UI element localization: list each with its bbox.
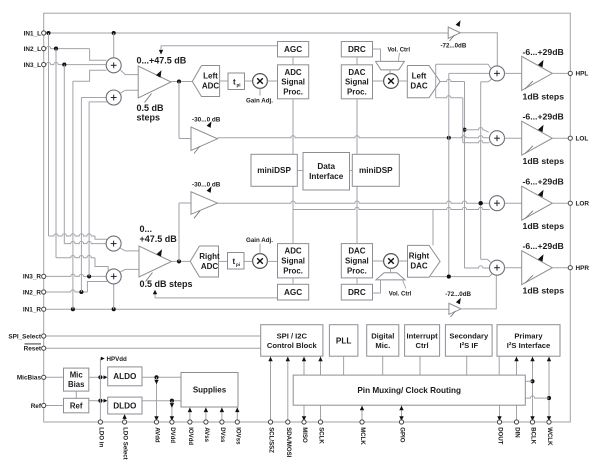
wire PinMux tap WCLK [525, 396, 549, 398]
block Primary I2S Interface [497, 325, 560, 357]
amp LOL tick [525, 146, 533, 154]
wire v3b to LOL mixer [463, 141, 490, 143]
wire v1 [448, 73, 450, 276]
wire Ref to DLDO [89, 400, 104, 402]
svg-text:I²S IF: I²S IF [460, 341, 479, 350]
wire IN1_R rise to summer S4 [113, 284, 115, 310]
wire GPIO riser [401, 405, 403, 422]
block Left ADC [192, 66, 219, 97]
wire miniDSP1 to DataIF [297, 170, 303, 172]
wire DVss riser [221, 407, 223, 422]
svg-text:AVss: AVss [203, 427, 210, 442]
block t_pi right [228, 253, 245, 270]
summer S3 [106, 236, 121, 251]
pin IOVss [235, 420, 239, 424]
summer S4 [106, 269, 121, 284]
block AGC right [278, 284, 309, 300]
wire AGC-R link [292, 278, 294, 284]
wire bypass L to LOL mixer [218, 136, 490, 138]
summer S2 [106, 90, 121, 105]
wire PriI2S link [498, 356, 500, 375]
svg-text:DAC: DAC [348, 68, 365, 77]
block SPI/I2C Control Block [261, 325, 323, 357]
svg-text:-72...0dB: -72...0dB [445, 291, 471, 298]
svg-text:HPR: HPR [576, 265, 590, 272]
pin HPL [568, 71, 572, 75]
wire bundle A jog [95, 236, 107, 239]
svg-text:IN1_L: IN1_L [24, 30, 41, 37]
wire ALDO out [142, 376, 181, 378]
PGA left gain arrow [156, 70, 162, 77]
svg-text:Primary: Primary [514, 331, 543, 340]
block Pin Muxing / Clock Routing [293, 375, 525, 405]
ctrl arrow AGC-L to PGA [160, 46, 162, 51]
wire LOL amp to pin [552, 137, 568, 139]
block DRC left [341, 42, 372, 57]
wire DAC-SP-R to mult [373, 260, 384, 262]
pin IN2_R [42, 290, 46, 294]
wire wedge stem left [389, 70, 391, 74]
wire PGA-L out drop to bypass amp [178, 82, 180, 139]
pin DVss [220, 420, 224, 424]
pin SCLK [318, 420, 322, 424]
wire v4 [480, 82, 482, 259]
wire IN2_R [46, 290, 88, 292]
wire wedge stem right [390, 268, 392, 272]
svg-text:Signal: Signal [281, 78, 305, 87]
PGA right gain arrow [156, 249, 162, 256]
amp -30..0dB left arrow [207, 121, 212, 128]
wire IN1_R to -72dB amp [46, 308, 449, 310]
svg-text:MCLK: MCLK [359, 427, 366, 445]
slant vol ctrl right [403, 280, 407, 289]
svg-text:Right: Right [409, 252, 430, 261]
wire AVdd drop [156, 377, 158, 422]
svg-text:DAC: DAC [348, 247, 365, 256]
wire DataIF to miniDSP2 [350, 170, 353, 172]
wire S1 to PGA L [120, 70, 138, 75]
block miniDSP left [251, 154, 297, 186]
wire DRC-R link [356, 278, 358, 284]
wire HPL amp to pin [552, 72, 568, 74]
wire right DAC top stub [432, 210, 434, 246]
svg-text:-30...0 dB: -30...0 dB [192, 182, 221, 189]
PGA right tick [146, 273, 153, 282]
svg-text:Signal: Signal [345, 78, 369, 87]
svg-text:Ctrl: Ctrl [416, 341, 429, 350]
svg-text:0.5 dB: 0.5 dB [137, 103, 165, 113]
amp -72..0dB right [449, 303, 461, 314]
svg-text:LDO Select: LDO Select [122, 427, 129, 460]
pin HPR [568, 266, 572, 270]
svg-text:AGC: AGC [284, 45, 302, 54]
block Left DAC [407, 66, 440, 98]
wire bundle B to summer S4 [56, 256, 95, 258]
wire ADC-SP-L to miniDSP [292, 99, 294, 155]
wire DAC-SP-L to miniDSP2 [356, 99, 358, 155]
wire PGA-R out rise to bypass amp [178, 203, 180, 261]
mixer LOR [490, 196, 505, 211]
wire Reset [46, 347, 261, 349]
svg-text:Gain Adj.: Gain Adj. [246, 237, 273, 244]
amp HPL -6..+29dB [522, 56, 553, 90]
wire IN2_R jog into summer S4 [87, 282, 107, 293]
wire MicBias-Ref link [75, 391, 77, 398]
svg-text:Ref: Ref [70, 401, 83, 410]
svg-text:MicBias: MicBias [17, 375, 42, 382]
amp -30..0dB right arrow [207, 186, 212, 193]
svg-text:PLL: PLL [336, 336, 351, 345]
svg-text:-6...+29dB: -6...+29dB [523, 241, 564, 251]
multiplier gain adj right [253, 254, 268, 269]
svg-text:-6...+29dB: -6...+29dB [523, 47, 564, 57]
svg-text:IN1_R: IN1_R [23, 307, 41, 314]
svg-text:ADC: ADC [201, 262, 219, 271]
svg-text:AGC: AGC [284, 288, 302, 297]
svg-text:Control Block: Control Block [267, 341, 318, 350]
pin WCLK [547, 420, 551, 424]
svg-text:DRC: DRC [348, 45, 366, 54]
amp -72..0dB left [448, 27, 460, 39]
svg-text:Mic.: Mic. [375, 341, 390, 350]
svg-text:IOVss: IOVss [234, 427, 241, 445]
svg-text:pi: pi [236, 262, 240, 267]
block t_pi left [228, 73, 245, 90]
wire U-branch left vertical [435, 64, 437, 98]
mixer HPR [490, 260, 505, 275]
svg-text:AVdd: AVdd [154, 427, 161, 443]
wire SecI2S link [466, 356, 468, 375]
svg-text:Supplies: Supplies [193, 386, 227, 395]
pin IN1_R [42, 307, 46, 311]
svg-text:SPI / I2C: SPI / I2C [277, 331, 308, 340]
block Mic Bias [64, 368, 89, 391]
volume wedge right [376, 273, 405, 280]
svg-text:Right: Right [199, 252, 220, 261]
svg-text:Proc.: Proc. [347, 87, 367, 96]
svg-text:1dB steps: 1dB steps [523, 156, 565, 166]
svg-text:DRC: DRC [348, 288, 366, 297]
wire bundle A from IN1_L [48, 33, 50, 236]
wire SPI_Select [46, 335, 261, 337]
wire S2 to PGA L [120, 90, 138, 93]
wire bundle F from IN3_R [88, 102, 90, 277]
svg-text:ADC: ADC [285, 247, 302, 256]
wire PGA-R out [172, 260, 191, 262]
wire DRC-R to wedge [373, 280, 381, 293]
wire LOR amp to pin [552, 202, 568, 204]
wire t-box to mult R [244, 260, 253, 262]
pin LDO in [98, 420, 102, 424]
wire IN1_L drop to summer S1 [113, 33, 115, 58]
pin DOUT [497, 420, 501, 424]
svg-text:Reset: Reset [24, 346, 42, 353]
wire bundle D jog to summer S1 [73, 70, 107, 81]
block Secondary I2S IF [445, 325, 492, 357]
amp LOL arrow [538, 125, 544, 132]
wire -72R out [461, 275, 496, 309]
wire v4 to HPL mixer [481, 81, 489, 83]
wire v3 dot to LOL mixer [465, 127, 484, 129]
wire mult to Right DAC [398, 260, 407, 262]
wire mixer to HPR amp [505, 267, 522, 269]
block ADC Signal Proc left [278, 65, 309, 99]
svg-text:+47.5 dB: +47.5 dB [140, 234, 178, 244]
svg-text:Interface: Interface [309, 172, 344, 181]
svg-text:IN3_R: IN3_R [23, 274, 41, 281]
svg-text:ALDO: ALDO [113, 372, 137, 381]
summer S1 [106, 58, 121, 73]
wire Ref pin [46, 405, 64, 407]
ctrl arrow AGC-R to PGA [154, 294, 156, 298]
wire SCL/SSZ riser [270, 356, 272, 422]
wire SCLK riser [320, 356, 322, 422]
svg-text:miniDSP: miniDSP [257, 166, 291, 175]
arrow HPVdd [101, 357, 105, 361]
svg-text:Signal: Signal [345, 257, 369, 266]
PGA right 0..+47.5dB [139, 246, 172, 277]
svg-text:SCL/SSZ: SCL/SSZ [268, 427, 275, 453]
svg-text:-6...+29dB: -6...+29dB [523, 177, 564, 187]
pin DIN [514, 420, 518, 424]
block Right ADC [190, 246, 218, 277]
svg-text:1dB steps: 1dB steps [523, 221, 565, 231]
svg-text:1dB steps: 1dB steps [523, 286, 565, 296]
svg-text:1dB steps: 1dB steps [523, 91, 565, 101]
svg-text:pi: pi [237, 83, 241, 88]
multiplier gain adj left [253, 74, 268, 89]
wire IN3_R into summer S4 [46, 274, 106, 276]
wire IN1_L to -72dB amp [46, 32, 449, 34]
wire MicBias pin [46, 376, 64, 378]
svg-text:0...: 0... [140, 224, 153, 234]
svg-text:Mic: Mic [70, 370, 84, 379]
wire Right DAC out [429, 276, 490, 278]
wire v1 to HPL mixer [449, 72, 490, 74]
pin Reset [42, 346, 46, 350]
block DAC Signal Proc left [341, 65, 372, 99]
wire S4 to PGA R [120, 269, 139, 272]
wire DRC-L link [356, 57, 358, 65]
block miniDSP right [352, 154, 399, 186]
amp -30..0dB left [191, 127, 218, 151]
wire IOVss riser [236, 407, 238, 422]
wire H3 [436, 96, 463, 98]
svg-text:WCLK: WCLK [546, 427, 553, 446]
multiplier vol left [384, 74, 399, 89]
wire mixer to LOL amp [505, 137, 522, 139]
ctrl stub gain adj right [259, 244, 261, 254]
svg-text:Proc.: Proc. [283, 87, 303, 96]
pin LOR [568, 201, 572, 205]
svg-text:BCLK: BCLK [530, 427, 537, 445]
pin IOVdd [188, 420, 192, 424]
wire mixer to LOR amp [505, 202, 522, 204]
wire LDO in riser [99, 359, 101, 422]
wire mult to Left DAC [398, 80, 407, 82]
svg-text:LDO in: LDO in [97, 427, 104, 447]
amp -30..0dB left tick [194, 146, 200, 154]
pin LOL [568, 136, 572, 140]
wire IOVdd riser [189, 407, 191, 422]
multiplier vol right [384, 254, 399, 269]
wire v4 to HPR mixer [481, 258, 488, 260]
svg-text:DLDO: DLDO [113, 401, 137, 410]
wire MCLK riser [361, 405, 363, 422]
wire DOUT drop [499, 405, 501, 422]
wire ADC-R to t-box [219, 260, 228, 262]
pin BCLK [530, 420, 534, 424]
wire into -30dB L amp [179, 138, 191, 140]
PGA left tick [145, 94, 152, 103]
wire v3 to HPR mixer [465, 266, 490, 268]
pin IN2_L [42, 47, 46, 51]
wire bundle B from IN2_L [55, 49, 57, 258]
amp LOR arrow [538, 190, 544, 197]
wire PinMux tap BCLK [525, 380, 532, 382]
wire H1 to HPL mixer [436, 63, 489, 65]
wire bundle F to summer S2 [89, 101, 107, 103]
amp HPR -6..+29dB [522, 251, 553, 285]
mixer HPL [490, 66, 505, 81]
block AGC left [278, 42, 309, 57]
svg-text:Secondary: Secondary [449, 331, 489, 340]
wire MISO riser [303, 356, 305, 422]
svg-text:HPL: HPL [576, 71, 589, 78]
pin AVdd [154, 420, 158, 424]
block DLDO [108, 397, 142, 414]
svg-text:Data: Data [317, 162, 335, 171]
wire mult to ADC-SP-L [267, 80, 277, 82]
pin AVss [204, 420, 208, 424]
amp HPR arrow [538, 254, 544, 261]
pin SDA/MOSI [286, 420, 290, 424]
PGA left 0..+47.5dB [138, 66, 171, 98]
wire bypass R to LOR mixer [218, 201, 490, 203]
svg-text:Gain Adj.: Gain Adj. [246, 98, 273, 105]
wire into -30dB R amp [179, 202, 191, 204]
wire AGC-L ctrl [161, 45, 278, 47]
amp HPL tick [525, 81, 533, 89]
svg-text:LOL: LOL [576, 136, 589, 143]
volume wedge left [375, 61, 404, 70]
wire ADC-L to t-box [220, 80, 228, 82]
block Data Interface [303, 153, 350, 191]
wire bundle E to summer S2 [81, 97, 106, 99]
amp LOL -6..+29dB [522, 121, 553, 155]
wire DigMic link [382, 356, 384, 375]
svg-text:Bias: Bias [68, 380, 85, 389]
svg-text:-30...0 dB: -30...0 dB [192, 117, 221, 124]
amp -30..0dB right tick [194, 211, 200, 219]
block Interrupt Ctrl [405, 325, 440, 357]
block ALDO [108, 367, 142, 386]
block PLL [329, 325, 358, 357]
pin IN3_L [42, 63, 46, 67]
ctrl stub gain adj left [259, 88, 261, 95]
amp HPR tick [525, 275, 533, 283]
amp -72..0dB right tick [451, 311, 456, 317]
wire BCLK riser [532, 356, 534, 422]
block DAC Signal Proc right [341, 244, 372, 278]
wire WCLK riser [548, 356, 550, 422]
pin Ref [42, 403, 46, 407]
svg-text:Vol. Ctrl: Vol. Ctrl [389, 291, 412, 297]
svg-text:miniDSP: miniDSP [359, 166, 393, 175]
wire DAC-SP-L to mult [373, 80, 384, 82]
wire S3 to PGA R [120, 248, 139, 251]
pin IN1_L [42, 31, 46, 35]
wire AGC-L link [292, 57, 294, 65]
pin MicBias [42, 375, 46, 379]
wire t-box to mult L [245, 80, 253, 82]
svg-text:GPIO: GPIO [399, 427, 406, 442]
svg-text:steps: steps [137, 113, 161, 123]
svg-text:DAC: DAC [410, 262, 428, 271]
svg-text:IN2_L: IN2_L [24, 46, 41, 53]
wire v3b [462, 98, 464, 143]
amp -72..0dB left tick [450, 35, 455, 41]
wire miniDSP to ADC-SP-R [292, 186, 294, 243]
wire LDO Select [124, 417, 126, 422]
wire v3 Left DAC down [464, 82, 466, 269]
block Digital Mic [367, 325, 399, 357]
wire bundle A to summer S3 [49, 234, 96, 236]
amp -72..0dB left arrow [456, 20, 461, 27]
svg-text:I²S Interface: I²S Interface [507, 341, 550, 350]
block ADC Signal Proc right [278, 244, 309, 278]
amp LOR tick [525, 211, 533, 219]
svg-text:SCLK: SCLK [318, 427, 325, 444]
wire miniDSP2 to DAC-SP-R [356, 186, 358, 243]
pin DVdd [170, 420, 174, 424]
amp -30..0dB right [191, 192, 218, 215]
svg-text:Proc.: Proc. [283, 266, 303, 275]
block Ref [64, 398, 89, 413]
mixer LOL [490, 131, 505, 146]
svg-text:Interrupt: Interrupt [406, 331, 438, 340]
wire MicBias to ALDO [89, 376, 104, 378]
wire Left DAC out [440, 79, 464, 81]
svg-text:HPVdd: HPVdd [107, 356, 128, 363]
wire bundle D from IN1_R [72, 81, 74, 309]
svg-text:DVss: DVss [219, 427, 226, 443]
wire mixer to HPL amp [505, 72, 522, 74]
svg-text:ADC: ADC [285, 68, 302, 77]
svg-text:IOVdd: IOVdd [187, 427, 194, 445]
wire PGA-L out [171, 81, 192, 83]
svg-text:SDA/MOSI: SDA/MOSI [285, 427, 292, 457]
pin SPI_Select [42, 334, 46, 338]
svg-text:-72...0dB: -72...0dB [441, 42, 467, 49]
pin SCL/SSZ [268, 420, 272, 424]
svg-text:0.5 dB steps: 0.5 dB steps [140, 279, 193, 289]
wire IN3_L into summer S1 [46, 62, 107, 64]
svg-text:SPI_Select: SPI_Select [8, 333, 42, 340]
pin LDO Select [123, 420, 127, 424]
block Right DAC [408, 245, 441, 277]
svg-text:IN2_R: IN2_R [23, 289, 41, 296]
slant vol ctrl left [398, 53, 399, 61]
svg-text:IN3_L: IN3_L [24, 62, 41, 69]
svg-text:Ref: Ref [31, 403, 42, 410]
wire DVdd drop [171, 401, 173, 422]
svg-text:Proc.: Proc. [347, 266, 367, 275]
wire LOR second input [293, 207, 490, 209]
wire mult to ADC-SP-R [267, 260, 277, 262]
svg-text:Vol. Ctrl: Vol. Ctrl [388, 47, 411, 53]
pin IN3_R [42, 274, 46, 278]
